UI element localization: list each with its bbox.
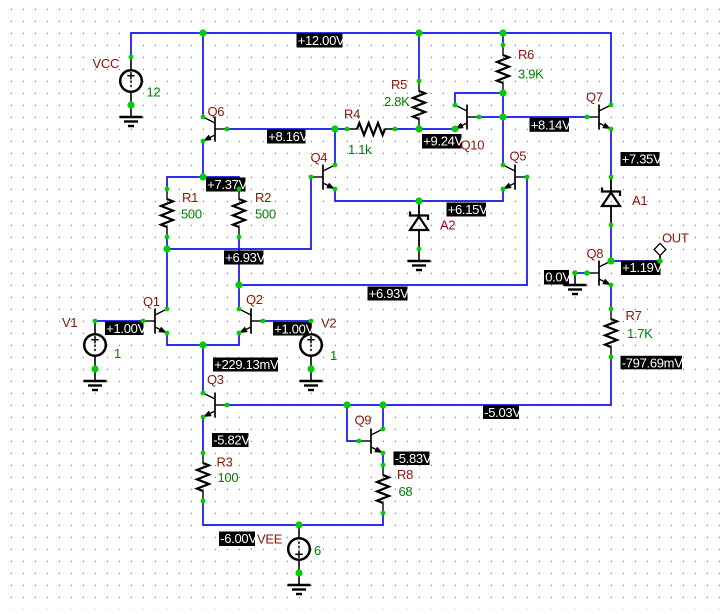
svg-text:R8: R8 xyxy=(397,467,413,482)
transistor Q7 xyxy=(587,105,611,130)
svg-text:+1.00V: +1.00V xyxy=(106,321,146,336)
wire Q7 emitter to A1 xyxy=(610,129,612,177)
svg-text:+8.14V: +8.14V xyxy=(531,117,571,132)
wire R3 to VEE xyxy=(203,501,299,525)
voltage label -5.83V xyxy=(394,451,432,466)
transistor Q10 xyxy=(455,105,479,130)
wire Q4 collector stub xyxy=(334,129,336,165)
svg-text:+229.13mV: +229.13mV xyxy=(214,357,279,372)
voltage label +7.37V xyxy=(206,177,248,192)
svg-text:Q6: Q6 xyxy=(208,104,225,119)
svg-text:+1.19V: +1.19V xyxy=(622,260,662,275)
wire Q1 Q2 emitters xyxy=(167,333,239,345)
voltage label 0.0V xyxy=(544,270,571,285)
svg-text:+8.16V: +8.16V xyxy=(268,129,308,144)
voltage label +6.93V right xyxy=(368,286,410,301)
wire Q9 base feed xyxy=(347,405,359,441)
wire Q2 collector to Q5 base xyxy=(239,177,527,285)
wire A1 to Q8 collector xyxy=(610,225,612,261)
svg-text:100: 100 xyxy=(218,470,239,485)
svg-text:OUT: OUT xyxy=(662,231,689,246)
svg-text:1: 1 xyxy=(330,348,337,363)
svg-text:V2: V2 xyxy=(321,316,336,331)
svg-text:R2: R2 xyxy=(255,190,271,205)
resistor R3 100 xyxy=(202,453,204,501)
resistor R4 1.1k xyxy=(347,128,395,130)
svg-text:+6.93V: +6.93V xyxy=(225,250,265,265)
voltage label +1.00V left xyxy=(105,321,147,336)
zener diode A2 xyxy=(410,201,428,249)
svg-text:VEE: VEE xyxy=(257,532,283,547)
wire R1 to Q4 base xyxy=(167,177,311,249)
voltage label +7.35V xyxy=(621,152,663,167)
svg-text:R4: R4 xyxy=(344,107,360,122)
svg-text:R7: R7 xyxy=(626,308,642,323)
resistor R2 500 xyxy=(238,189,240,237)
resistor R8 68 xyxy=(382,465,384,513)
voltage label +8.16V xyxy=(267,129,309,144)
output terminal OUT diamond xyxy=(654,243,666,261)
resistor R1 500 xyxy=(166,189,168,237)
voltage label -5.03V xyxy=(483,405,521,420)
wire emitter node to Q3 collector xyxy=(202,345,204,393)
ground below VCC xyxy=(120,105,143,126)
svg-text:-797.69mV: -797.69mV xyxy=(622,355,684,370)
svg-text:Q8: Q8 xyxy=(587,246,604,261)
svg-text:3.9K: 3.9K xyxy=(518,67,544,82)
voltage label +6.93V left xyxy=(224,250,266,265)
svg-text:-5.03V: -5.03V xyxy=(484,405,521,420)
svg-text:VCC: VCC xyxy=(93,56,120,71)
svg-text:R1: R1 xyxy=(182,190,198,205)
wire Q8 collector to OUT xyxy=(611,256,660,261)
resistor R7 1.7K xyxy=(610,309,612,357)
svg-text:-6.00V: -6.00V xyxy=(220,531,257,546)
voltage label -5.82V xyxy=(212,433,250,448)
transistor Q6 xyxy=(203,117,227,142)
svg-text:+6.15V: +6.15V xyxy=(448,202,488,217)
wire R7 bottom to Q3 base xyxy=(227,357,611,405)
voltage label +229.13mV xyxy=(213,357,279,372)
transistor Q1 xyxy=(143,309,167,334)
ground below A2 xyxy=(408,249,431,270)
svg-text:Q3: Q3 xyxy=(207,372,224,387)
svg-text:Q7: Q7 xyxy=(586,90,603,105)
wire R5 top stub xyxy=(418,33,420,81)
svg-text:+12.00V: +12.00V xyxy=(298,33,345,48)
wire Q2 base to V2 xyxy=(263,320,311,322)
transistor Q9 xyxy=(359,429,383,454)
transistor Q4 xyxy=(311,165,335,190)
wire Q6 collector to rail xyxy=(202,33,204,117)
svg-text:Q4: Q4 xyxy=(311,150,328,165)
svg-text:1.1k: 1.1k xyxy=(348,142,372,157)
wire V1 to Q1 base xyxy=(95,320,143,322)
svg-text:Q1: Q1 xyxy=(143,294,160,309)
svg-text:2.8K: 2.8K xyxy=(384,94,410,109)
svg-text:500: 500 xyxy=(181,207,202,222)
wire R1 R2 top rail xyxy=(167,177,239,189)
resistor R6 3.9K xyxy=(502,45,504,93)
wire Q3 emitter to R3 xyxy=(202,417,204,453)
voltage label +12.00V xyxy=(297,33,346,48)
svg-text:R5: R5 xyxy=(391,77,407,92)
svg-text:68: 68 xyxy=(399,484,413,499)
svg-text:+1.00V: +1.00V xyxy=(274,322,314,337)
wire VEE to R8 xyxy=(299,513,383,525)
wire R6 top stub xyxy=(502,33,504,45)
wire R1 bottom stub xyxy=(166,237,168,249)
svg-text:+9.24V: +9.24V xyxy=(423,134,463,149)
wire R6 bottom to Q5 collector xyxy=(502,93,504,165)
wire VCC rail top xyxy=(131,33,611,105)
voltage label +6.15V xyxy=(447,202,489,217)
wire Q1 collector up xyxy=(166,249,168,309)
ground below V1 xyxy=(84,369,107,390)
voltage label +1.00V right xyxy=(273,322,315,337)
svg-text:+7.35V: +7.35V xyxy=(622,152,662,167)
svg-text:A2: A2 xyxy=(440,218,455,233)
wire Q10 collector to R6 xyxy=(455,93,503,105)
zener diode A1 xyxy=(602,177,620,225)
svg-text:6: 6 xyxy=(314,543,321,558)
ground at Q8 base xyxy=(564,273,587,294)
transistor Q3 xyxy=(203,393,227,418)
resistor R5 2.8K xyxy=(418,81,420,129)
svg-text:Q10: Q10 xyxy=(461,138,485,153)
svg-text:R6: R6 xyxy=(518,47,534,62)
wire Q9 collector up xyxy=(382,405,384,429)
ground below VEE xyxy=(288,573,311,594)
voltage source V1 1V xyxy=(84,321,106,369)
wire R2 bottom to Q2 collector xyxy=(238,237,240,309)
svg-text:A1: A1 xyxy=(632,193,647,208)
svg-text:+7.37V: +7.37V xyxy=(207,177,247,192)
wire Q9 emitter to R8 xyxy=(382,453,384,465)
wire ground to Q8 base xyxy=(575,272,587,274)
voltage label +9.24V xyxy=(422,134,464,149)
svg-text:R3: R3 xyxy=(217,455,233,470)
wire Q10 base to Q7 base xyxy=(479,116,587,118)
svg-text:-5.82V: -5.82V xyxy=(213,433,250,448)
transistor Q8 xyxy=(587,261,611,286)
svg-text:Q9: Q9 xyxy=(355,413,372,428)
svg-text:+6.93V: +6.93V xyxy=(369,286,409,301)
svg-text:1.7K: 1.7K xyxy=(627,326,653,341)
voltage label +8.14V xyxy=(530,117,572,132)
voltage label -797.69mV xyxy=(621,355,684,370)
svg-text:V1: V1 xyxy=(62,315,77,330)
ground below V2 xyxy=(300,369,323,390)
transistor Q5 xyxy=(503,165,527,190)
svg-text:0.0V: 0.0V xyxy=(545,270,571,285)
voltage label +1.19V xyxy=(621,260,663,275)
svg-text:-5.83V: -5.83V xyxy=(395,451,432,466)
voltage source VCC 12V xyxy=(120,57,142,105)
svg-text:Q5: Q5 xyxy=(510,149,527,164)
terminal dots xyxy=(93,43,663,516)
svg-text:500: 500 xyxy=(255,207,276,222)
voltage label -6.00V xyxy=(219,531,257,546)
svg-text:Q2: Q2 xyxy=(246,292,263,307)
voltage source V2 1V xyxy=(300,321,322,369)
voltage source VEE 6V xyxy=(288,525,310,573)
svg-text:12: 12 xyxy=(147,85,161,100)
svg-text:1: 1 xyxy=(114,346,121,361)
wire Q4 Q5 emitters to A2 xyxy=(335,189,503,201)
transistor Q2 xyxy=(239,309,263,334)
wire Q6 emitter down xyxy=(202,141,204,177)
wire Q8 emitter to R7 xyxy=(610,285,612,309)
wire R4 to Q10 emitter xyxy=(395,128,455,130)
wire Q6 base to R4 xyxy=(227,128,347,130)
